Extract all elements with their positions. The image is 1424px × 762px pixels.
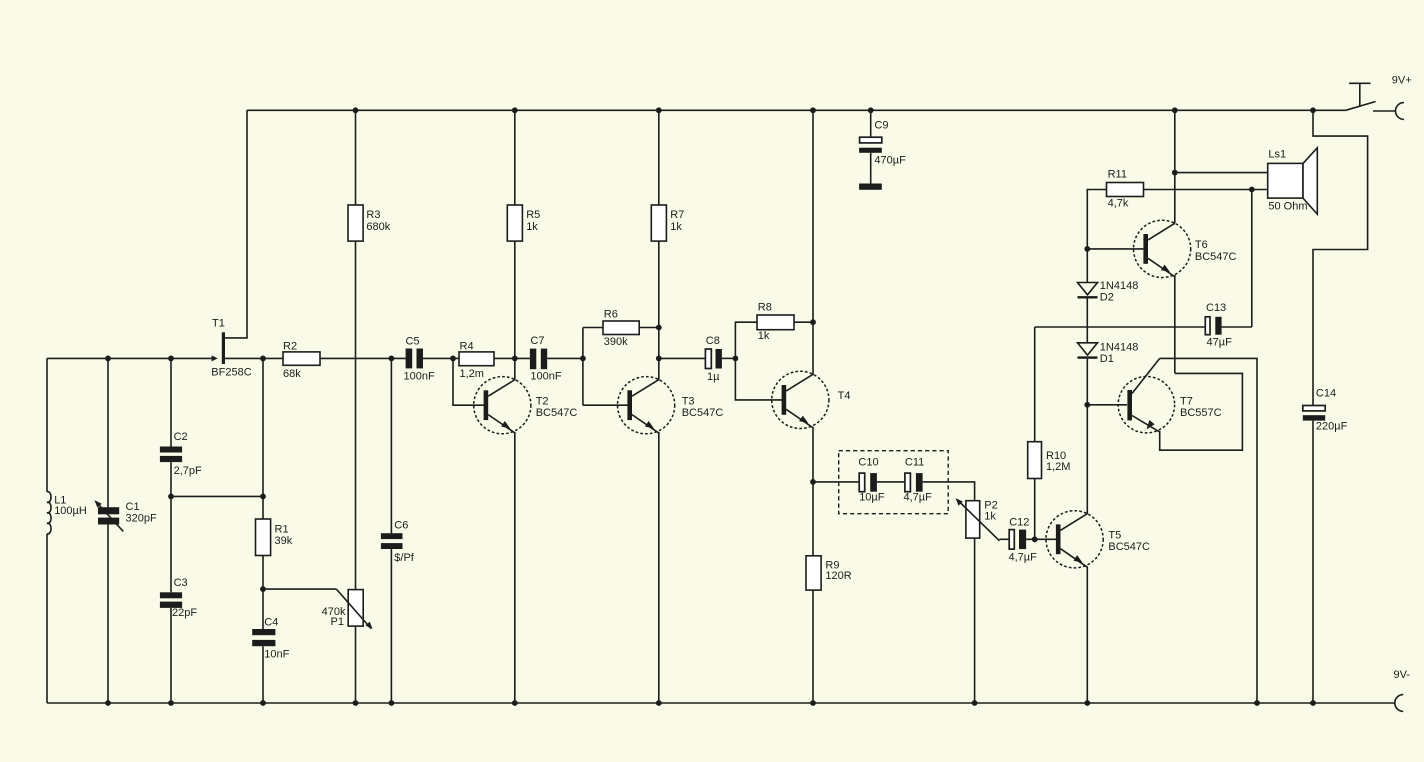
svg-text:R5: R5 bbox=[526, 209, 540, 221]
svg-text:C8: C8 bbox=[706, 335, 720, 347]
junction top rail / R7 bbox=[656, 107, 662, 113]
svg-text:BF258C: BF258C bbox=[211, 367, 251, 379]
wire R1 to C4 node bbox=[262, 556, 264, 630]
junction top rail / R3 bbox=[353, 107, 359, 113]
transistor T1 (BF258C) bbox=[212, 355, 218, 361]
wire R5 to T2 collector node bbox=[514, 241, 516, 358]
wire D-column R11 to T6 base bbox=[1087, 190, 1106, 283]
wire T4 base node riser to R8 bbox=[735, 322, 757, 358]
svg-text:R11: R11 bbox=[1108, 169, 1127, 181]
junction ground / C4 bbox=[260, 700, 266, 706]
junction signal / T2 collector bbox=[512, 356, 518, 362]
junction ground / T7 line bbox=[1254, 700, 1260, 706]
wire T4 emitter node to C10 bbox=[813, 481, 859, 483]
svg-text:C6: C6 bbox=[394, 520, 408, 532]
wire T3 base bbox=[583, 404, 628, 406]
wire T2 emitter to ground rail bbox=[514, 432, 516, 703]
svg-text:D2: D2 bbox=[1100, 292, 1114, 304]
wire C14 to ground rail bbox=[1312, 421, 1314, 703]
wire C12 to T5 base bbox=[1026, 538, 1056, 540]
wire bottom ground rail bbox=[47, 702, 1395, 704]
svg-text:R10: R10 bbox=[1046, 450, 1066, 462]
svg-text:1,2M: 1,2M bbox=[1046, 461, 1070, 473]
svg-text:1N4148: 1N4148 bbox=[1100, 280, 1139, 292]
capacitor C3 bbox=[160, 592, 182, 598]
svg-text:P1: P1 bbox=[331, 616, 344, 628]
svg-text:100nF: 100nF bbox=[404, 371, 435, 383]
wire R5 column upper bbox=[514, 110, 516, 205]
svg-text:R1: R1 bbox=[275, 524, 289, 536]
wire signal line left (antenna input) bbox=[47, 357, 212, 359]
transistor T4 bbox=[772, 371, 829, 428]
resistor R6 bbox=[603, 321, 639, 335]
svg-text:R4: R4 bbox=[460, 341, 474, 353]
svg-text:1k: 1k bbox=[670, 221, 682, 233]
wire C8 to T4 base node bbox=[722, 357, 736, 359]
wire C6 column upper bbox=[390, 358, 392, 533]
wire switch node drop around speaker bbox=[1313, 110, 1368, 405]
junction C2-C3 / mid bbox=[168, 494, 174, 500]
svg-text:4,7µF: 4,7µF bbox=[1009, 552, 1038, 564]
svg-text:47µF: 47µF bbox=[1207, 337, 1233, 349]
capacitor C13 (polarized) bbox=[1205, 317, 1210, 335]
resistor R1 bbox=[256, 519, 271, 556]
wire T1 drain riser bbox=[225, 110, 247, 338]
svg-text:R7: R7 bbox=[670, 209, 684, 221]
svg-text:1N4148: 1N4148 bbox=[1100, 342, 1139, 354]
transistor T6 (BC547C) bbox=[1134, 220, 1191, 277]
wire T2 base drop bbox=[453, 358, 484, 405]
wire C3 column lower bbox=[170, 608, 172, 703]
terminal 9V+ bbox=[1373, 110, 1396, 112]
dashed highlight box (C10/C11) bbox=[839, 451, 949, 514]
junction T6 base / D2 bbox=[1084, 246, 1090, 252]
wire C1 column lower bbox=[107, 524, 109, 703]
capacitor C14 (polarized) bbox=[1303, 406, 1325, 411]
potentiometer P1 bbox=[348, 590, 363, 627]
wire signal line T1 source to C5 bbox=[225, 357, 406, 359]
wire R1/C4 node to P1 wiper bbox=[263, 588, 336, 590]
svg-text:470µF: 470µF bbox=[874, 155, 906, 167]
wire T3 emitter to ground rail bbox=[658, 432, 660, 703]
svg-text:T3: T3 bbox=[682, 396, 695, 408]
svg-text:22pF: 22pF bbox=[172, 607, 197, 619]
junction ground / R9 bbox=[810, 700, 816, 706]
wire signal line C5 to R4 bbox=[423, 357, 459, 359]
svg-text:C7: C7 bbox=[530, 335, 544, 347]
junction ground / C14 bbox=[1310, 700, 1316, 706]
resistor R10 bbox=[1028, 442, 1042, 479]
svg-text:T7: T7 bbox=[1180, 396, 1193, 408]
capacitor C6 bbox=[381, 533, 403, 539]
capacitor C11 (polarized) bbox=[905, 473, 911, 492]
svg-text:D1: D1 bbox=[1100, 353, 1114, 365]
wire signal line R4 to C7 bbox=[494, 357, 530, 359]
wire top supply rail bbox=[247, 109, 1346, 111]
wire T3 collector stub bbox=[658, 358, 660, 380]
junction top rail / T6 column bbox=[1172, 107, 1178, 113]
wire R3 to P1 bbox=[355, 241, 357, 590]
wire T2 collector stub bbox=[514, 358, 516, 380]
capacitor C1 (variable) bbox=[98, 507, 119, 514]
svg-text:120R: 120R bbox=[825, 570, 851, 582]
junction ground / T3 emitter bbox=[656, 700, 662, 706]
wire R7 column upper bbox=[658, 110, 660, 205]
wire P1 to ground rail bbox=[355, 626, 357, 703]
junction top rail / R5 bbox=[512, 107, 518, 113]
wire C10 to C11 bbox=[877, 481, 905, 483]
svg-text:320pF: 320pF bbox=[126, 513, 157, 525]
junction R1 / C4 / P1 wiper bbox=[260, 586, 266, 592]
wire C4 to ground rail bbox=[262, 646, 264, 703]
wire T7 base bbox=[1087, 404, 1127, 406]
svg-text:C14: C14 bbox=[1316, 388, 1336, 400]
junction signal / T3 base node bbox=[580, 356, 586, 362]
junction R6 / R7 column bbox=[656, 325, 662, 331]
svg-text:C13: C13 bbox=[1206, 302, 1226, 314]
wire T5 collector column bbox=[1086, 405, 1088, 514]
resistor R3 bbox=[348, 205, 363, 241]
switch S1 (pushbutton) bbox=[1346, 102, 1376, 111]
capacitor C4 bbox=[252, 629, 275, 635]
svg-text:T5: T5 bbox=[1108, 530, 1121, 542]
svg-text:BC547C: BC547C bbox=[682, 407, 724, 419]
transistor T2 (BC547C) bbox=[474, 377, 531, 434]
svg-text:10nF: 10nF bbox=[264, 649, 289, 661]
svg-text:T6: T6 bbox=[1195, 239, 1208, 251]
resistor R11 bbox=[1107, 183, 1144, 197]
wire R6 right lead bbox=[639, 327, 659, 329]
wire C2 to C3 bbox=[170, 462, 172, 592]
junction signal / C2 bbox=[168, 356, 174, 362]
wire R1 column upper bbox=[262, 358, 264, 519]
junction D1 / T7 base bbox=[1084, 402, 1090, 408]
transistor T7 (BC557C) bbox=[1118, 377, 1174, 433]
wire T5 emitter to ground rail bbox=[1086, 567, 1088, 703]
svg-text:$/Pf: $/Pf bbox=[394, 552, 415, 564]
wire R9 top lead bbox=[812, 482, 814, 556]
wire P2 wiper to C12 bbox=[1000, 538, 1010, 540]
wire R9 to ground rail bbox=[812, 590, 814, 703]
junction signal / T2 base bbox=[450, 356, 456, 362]
wire T4 base drop bbox=[735, 358, 782, 400]
wire D1 to T7 base node bbox=[1086, 359, 1088, 405]
svg-text:100nF: 100nF bbox=[530, 371, 561, 383]
capacitor C7 bbox=[530, 349, 536, 370]
wire P2 to ground rail bbox=[974, 538, 976, 703]
junction ground / P2 bbox=[972, 700, 978, 706]
svg-text:220µF: 220µF bbox=[1316, 421, 1348, 433]
svg-text:BC557C: BC557C bbox=[1180, 407, 1222, 419]
svg-text:T1: T1 bbox=[212, 318, 225, 330]
junction R11 / C13 riser bbox=[1249, 187, 1255, 193]
svg-text:1k: 1k bbox=[758, 330, 770, 342]
capacitor C10 (polarized) bbox=[859, 473, 865, 492]
junction R1 / C2-C3 link bbox=[260, 494, 266, 500]
junction top rail / T4 column bbox=[810, 107, 816, 113]
wire R11 right lead to speaker bbox=[1144, 189, 1268, 191]
junction signal / T3 collector bbox=[656, 356, 662, 362]
wire T3 base node column bbox=[582, 328, 584, 406]
svg-text:390k: 390k bbox=[604, 336, 628, 348]
wire C13 right lead bbox=[1222, 326, 1252, 328]
svg-text:1k: 1k bbox=[984, 511, 996, 523]
speaker Ls1 bbox=[1268, 163, 1303, 198]
svg-text:68k: 68k bbox=[283, 368, 301, 380]
junction C8 / T4 base node bbox=[733, 356, 739, 362]
potentiometer P2 bbox=[966, 501, 980, 538]
svg-text:100µH: 100µH bbox=[54, 505, 87, 517]
svg-text:39k: 39k bbox=[275, 535, 293, 547]
svg-text:C4: C4 bbox=[264, 617, 278, 629]
wire C1 column upper bbox=[107, 358, 109, 507]
svg-text:C5: C5 bbox=[406, 336, 420, 348]
terminal 9V- bbox=[1395, 695, 1403, 712]
junction ground / T2 emitter bbox=[512, 700, 518, 706]
svg-text:BC547C: BC547C bbox=[1195, 251, 1237, 263]
wire C13 line bbox=[1035, 326, 1206, 328]
ground (below C9) bbox=[859, 184, 882, 190]
svg-text:C9: C9 bbox=[874, 120, 888, 132]
capacitor C5 bbox=[406, 349, 413, 369]
svg-text:C1: C1 bbox=[126, 501, 140, 513]
svg-text:1,2m: 1,2m bbox=[460, 368, 484, 380]
svg-text:1k: 1k bbox=[526, 221, 538, 233]
svg-text:R6: R6 bbox=[604, 309, 618, 321]
wire C13 left corner riser bbox=[1034, 327, 1036, 442]
svg-text:Ls1: Ls1 bbox=[1268, 149, 1286, 161]
junction top rail / switch bbox=[1310, 107, 1316, 113]
wire C6 to ground rail bbox=[390, 549, 392, 703]
wire D2 to D1 bbox=[1086, 298, 1088, 343]
svg-text:BC547C: BC547C bbox=[1108, 541, 1150, 553]
wire C2/C3 column upper bbox=[170, 358, 172, 446]
wire left antenna column lower bbox=[46, 534, 48, 703]
wire R7 to T3 collector node bbox=[658, 241, 660, 358]
capacitor C2 bbox=[160, 447, 182, 453]
svg-text:4,7µF: 4,7µF bbox=[904, 492, 933, 504]
wire R6 left lead bbox=[583, 327, 603, 329]
junction top rail / C9 bbox=[868, 107, 874, 113]
wire left antenna column bbox=[46, 358, 48, 491]
capacitor C9 (polarized) bbox=[870, 110, 872, 137]
capacitor C12 (polarized) bbox=[1009, 530, 1014, 550]
wire C13 riser to speaker node bbox=[1251, 190, 1253, 328]
junction T4 emitter / C10 / R9 bbox=[810, 479, 816, 485]
svg-text:C10: C10 bbox=[858, 457, 878, 469]
junction ground / P1 bbox=[353, 700, 359, 706]
svg-text:9V+: 9V+ bbox=[1392, 74, 1412, 86]
junction R8 / T4 collector column bbox=[810, 319, 816, 325]
diode D2 (1N4148) bbox=[1078, 283, 1098, 295]
inductor L1 bbox=[47, 492, 51, 534]
resistor R7 bbox=[651, 205, 666, 241]
junction signal / C6 bbox=[389, 356, 395, 362]
transistor T3 (BC547C) bbox=[618, 377, 675, 434]
diode D1 (1N4148) bbox=[1078, 343, 1098, 355]
wire C11 to P2 bbox=[923, 482, 975, 501]
transistor T5 (BC547C) bbox=[1046, 511, 1103, 568]
svg-text:50 Ohm: 50 Ohm bbox=[1268, 201, 1307, 213]
svg-text:10µF: 10µF bbox=[859, 492, 885, 504]
wire T4 emitter to C10/R9 node bbox=[812, 427, 814, 482]
resistor R9 bbox=[806, 556, 821, 590]
svg-text:680k: 680k bbox=[366, 221, 390, 233]
svg-text:C2: C2 bbox=[174, 431, 188, 443]
svg-text:R2: R2 bbox=[283, 341, 297, 353]
svg-text:C12: C12 bbox=[1009, 517, 1029, 529]
junction ground / T5 emitter bbox=[1084, 700, 1090, 706]
resistor R5 bbox=[507, 205, 522, 241]
wire T6 emitter to T7 node bbox=[1174, 275, 1176, 373]
svg-text:R8: R8 bbox=[758, 302, 772, 314]
svg-text:BC547C: BC547C bbox=[536, 407, 578, 419]
junction ground / C2-C3 bbox=[168, 700, 174, 706]
wire R10 drop to T5 base node bbox=[1034, 479, 1036, 540]
svg-text:R3: R3 bbox=[366, 209, 380, 221]
resistor R4 bbox=[459, 352, 494, 366]
wire T7 emitter to ground bbox=[1160, 358, 1257, 703]
junction ground / C1 bbox=[105, 700, 111, 706]
wire R3 column upper bbox=[355, 110, 357, 205]
svg-text:T4: T4 bbox=[838, 390, 851, 402]
svg-text:C3: C3 bbox=[174, 577, 188, 589]
wire T6 collector column bbox=[1174, 110, 1176, 223]
wire C2/C3 node to R1 node bbox=[171, 495, 263, 497]
junction ground / C6 bbox=[389, 700, 395, 706]
wire signal line T3 collector to C8 bbox=[659, 357, 706, 359]
wire R8 right lead bbox=[794, 321, 813, 323]
wire T4 collector column bbox=[812, 110, 814, 375]
svg-text:T2: T2 bbox=[536, 396, 549, 408]
resistor R2 bbox=[283, 352, 320, 365]
wire signal line C7 to T3 base node bbox=[547, 357, 583, 359]
wire T6 base bbox=[1087, 248, 1143, 250]
wire speaker upper lead bbox=[1175, 172, 1268, 174]
junction C12 / R10 / T5 base bbox=[1032, 536, 1038, 542]
junction T6 collector / speaker lead bbox=[1172, 170, 1178, 176]
svg-text:9V-: 9V- bbox=[1394, 669, 1411, 681]
resistor R8 bbox=[757, 315, 794, 330]
junction signal / C1 bbox=[105, 356, 111, 362]
wire T7 collector loop bbox=[1160, 373, 1243, 450]
junction signal / R1 column bbox=[260, 356, 266, 362]
svg-text:2,7pF: 2,7pF bbox=[174, 465, 202, 477]
svg-text:1µ: 1µ bbox=[707, 371, 720, 383]
svg-text:4,7k: 4,7k bbox=[1108, 198, 1129, 210]
svg-text:C11: C11 bbox=[905, 457, 924, 469]
capacitor C8 (polarized) bbox=[705, 349, 711, 369]
